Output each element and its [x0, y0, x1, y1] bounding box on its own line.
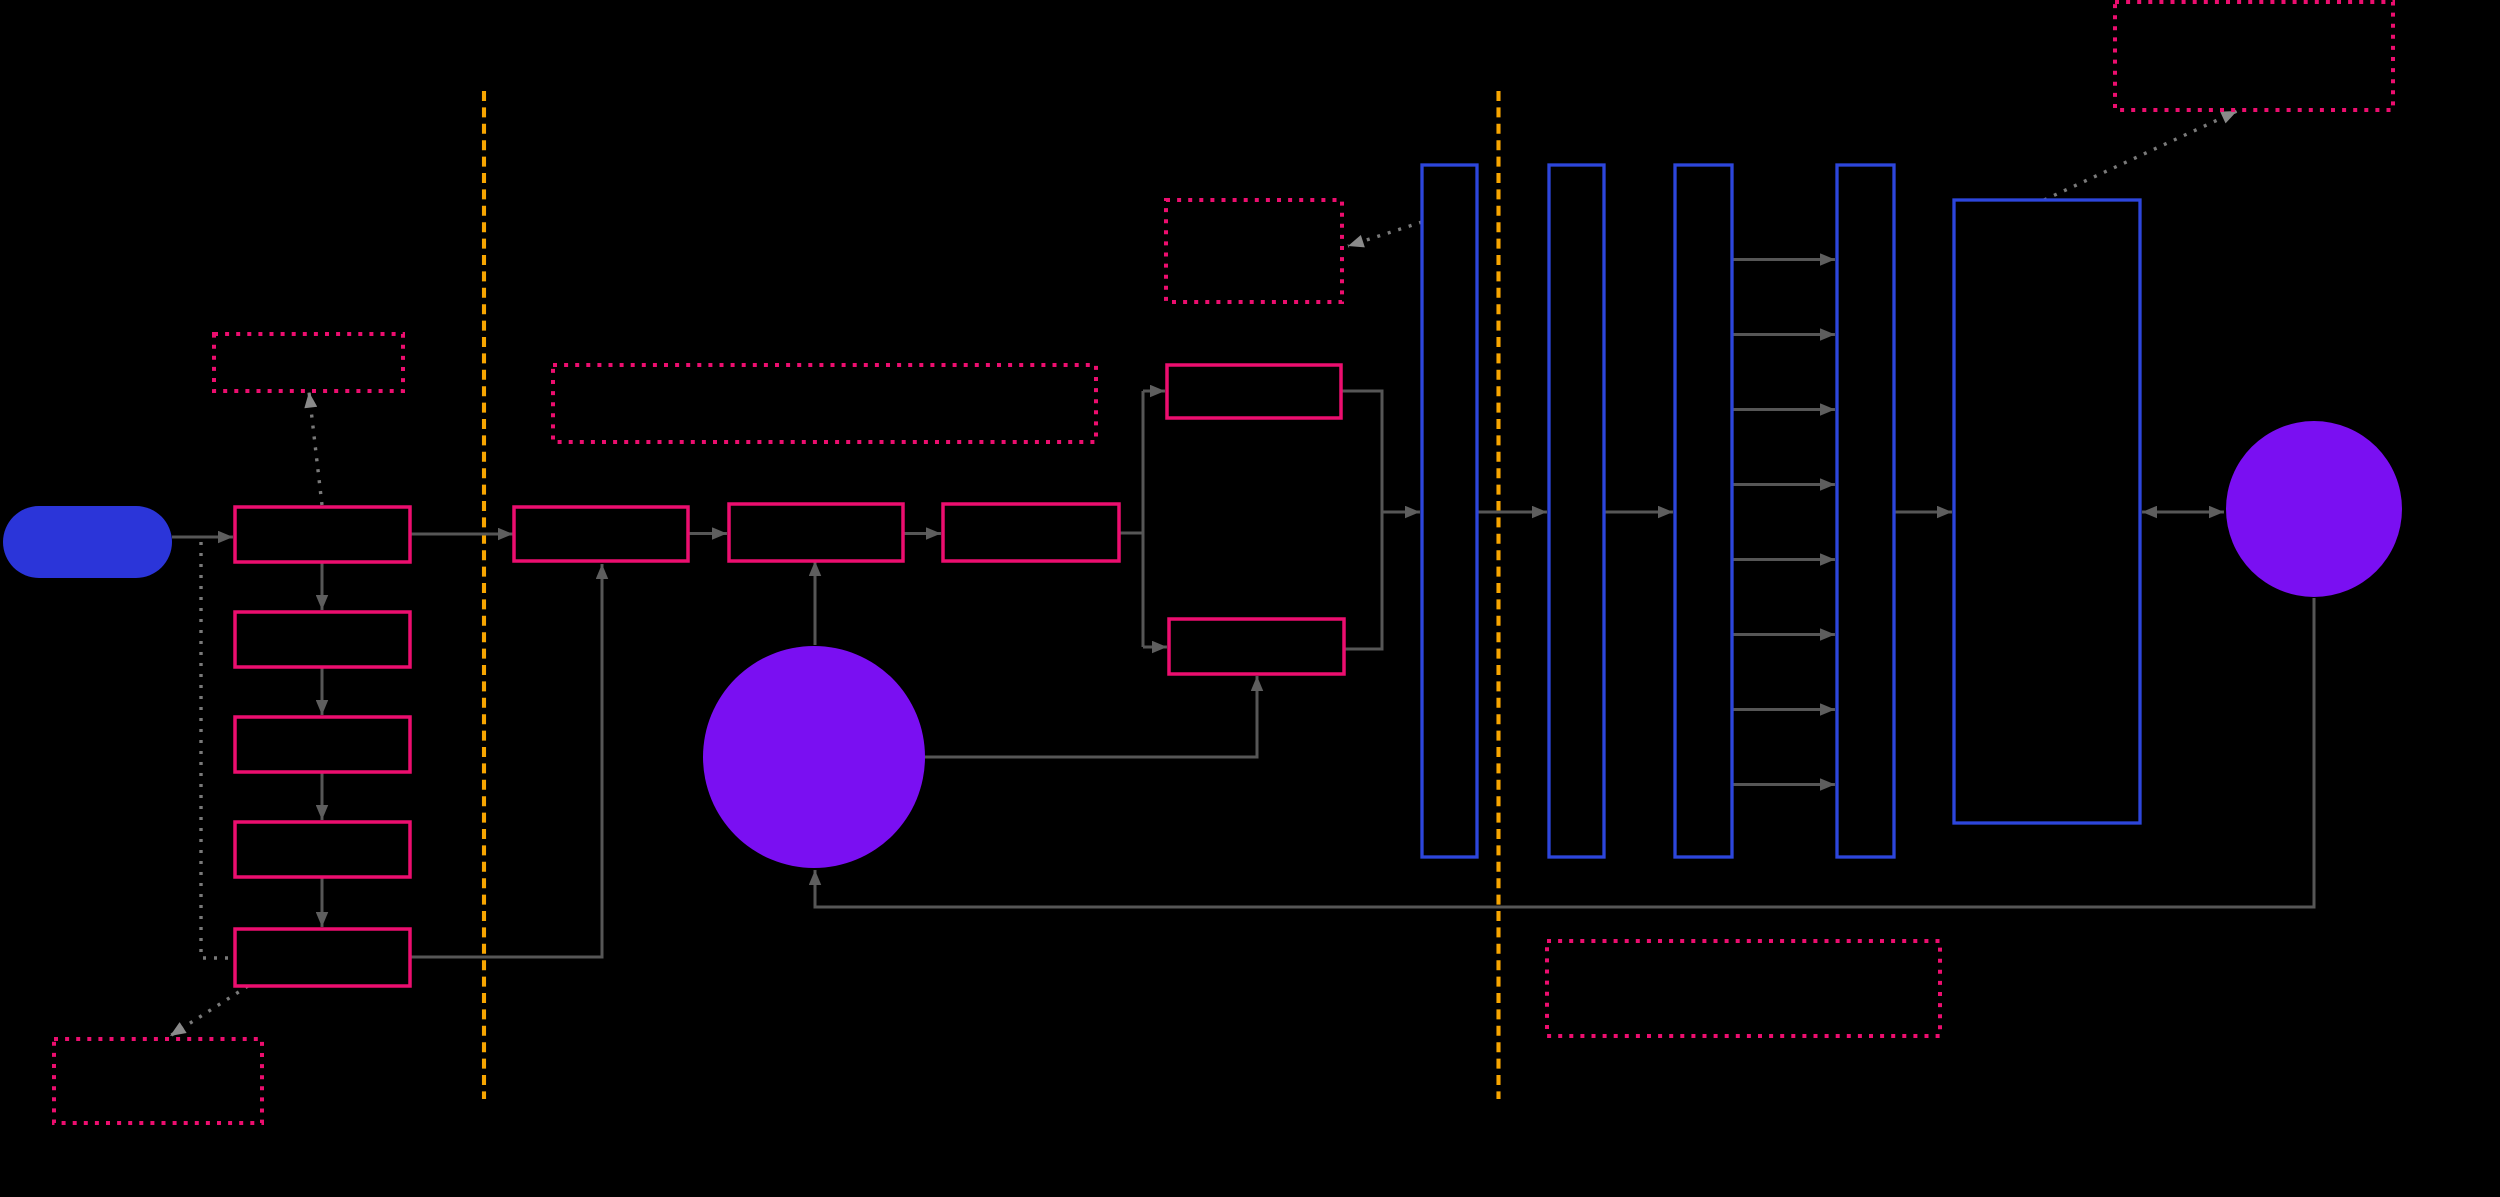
layer rect R3: [1675, 165, 1732, 857]
dotted note DB2 wide: [553, 365, 1096, 442]
wire BC to split junction: [1119, 532, 1143, 535]
wire big rect to circle C2 double arrow: [2142, 511, 2224, 514]
wire pill to box B1: [172, 536, 233, 539]
dotted note DB6 bottom left: [54, 1039, 262, 1123]
wire R3 to R4 arrow 4: [1732, 483, 1835, 486]
wire BD right to merge: [1341, 391, 1382, 512]
wire B1 down to B2: [321, 563, 324, 610]
wire R3 to R4 arrow 6: [1732, 633, 1835, 636]
layer rect R2: [1549, 165, 1604, 857]
big output rect: [1954, 200, 2140, 823]
wire R1 to R2: [1477, 511, 1547, 514]
box B1: [235, 507, 410, 562]
box B5: [235, 929, 410, 986]
wire R2 to R3: [1604, 511, 1673, 514]
dashed phase divider line 1: [482, 91, 486, 1099]
wire R3 to R4 arrow 2: [1732, 333, 1835, 336]
box BA: [514, 507, 688, 561]
wire BE right to merge: [1344, 512, 1382, 649]
wire junction to BD: [1143, 390, 1165, 393]
wire BA to BB: [688, 532, 727, 535]
wire R3 to R4 arrow 3: [1732, 408, 1835, 411]
dotted annotation link B1 to note DB1: [309, 392, 322, 505]
wire B2 down to B3: [321, 668, 324, 715]
dotted note DB5 bottom middle: [1547, 941, 1940, 1036]
start pill node: [3, 506, 172, 578]
dotted annotation link B5 to note DB6: [170, 986, 248, 1036]
box B3: [235, 717, 410, 772]
dotted note DB1 above B1: [214, 334, 403, 391]
wire feedback C2 down left to C1: [815, 598, 2314, 907]
purple circle C2: [2226, 421, 2402, 597]
purple circle C1: [703, 646, 925, 868]
dotted link pill lane down to B5: [201, 542, 232, 958]
wire B1 to BA: [410, 533, 513, 536]
wire R4 to big rect: [1894, 511, 1952, 514]
wire B5 right and up to BA bottom: [410, 564, 602, 957]
layer rect R1: [1422, 165, 1477, 857]
box BC: [943, 504, 1119, 561]
wire R3 to R4 arrow 7: [1732, 708, 1835, 711]
dotted annotation link R1 to note DB3: [1348, 222, 1422, 246]
wire merge to R1: [1382, 511, 1420, 514]
box BD: [1167, 365, 1341, 418]
wire R3 to R4 arrow 8: [1732, 783, 1835, 786]
dashed phase divider line 2: [1496, 91, 1500, 1099]
wire B3 down to B4: [321, 773, 324, 820]
dotted note DB3 left of R1: [1166, 200, 1342, 302]
box BE: [1169, 619, 1344, 674]
wire C1 right to BE bottom: [925, 676, 1257, 757]
wire B4 down to B5: [321, 878, 324, 927]
layer rect R4: [1837, 165, 1894, 857]
wire R3 to R4 arrow 1: [1732, 258, 1835, 261]
wire BB to BC: [903, 532, 941, 535]
wire C1 up to BB: [814, 561, 817, 645]
box BB: [729, 504, 903, 561]
dotted note DB4 top right: [2115, 2, 2393, 110]
box B4: [235, 822, 410, 877]
dotted annotation link big rect to note DB4: [2044, 111, 2237, 200]
wire R3 to R4 arrow 5: [1732, 558, 1835, 561]
wire junction vertical: [1142, 391, 1145, 647]
box B2: [235, 612, 410, 667]
wire junction to BE: [1143, 646, 1167, 649]
